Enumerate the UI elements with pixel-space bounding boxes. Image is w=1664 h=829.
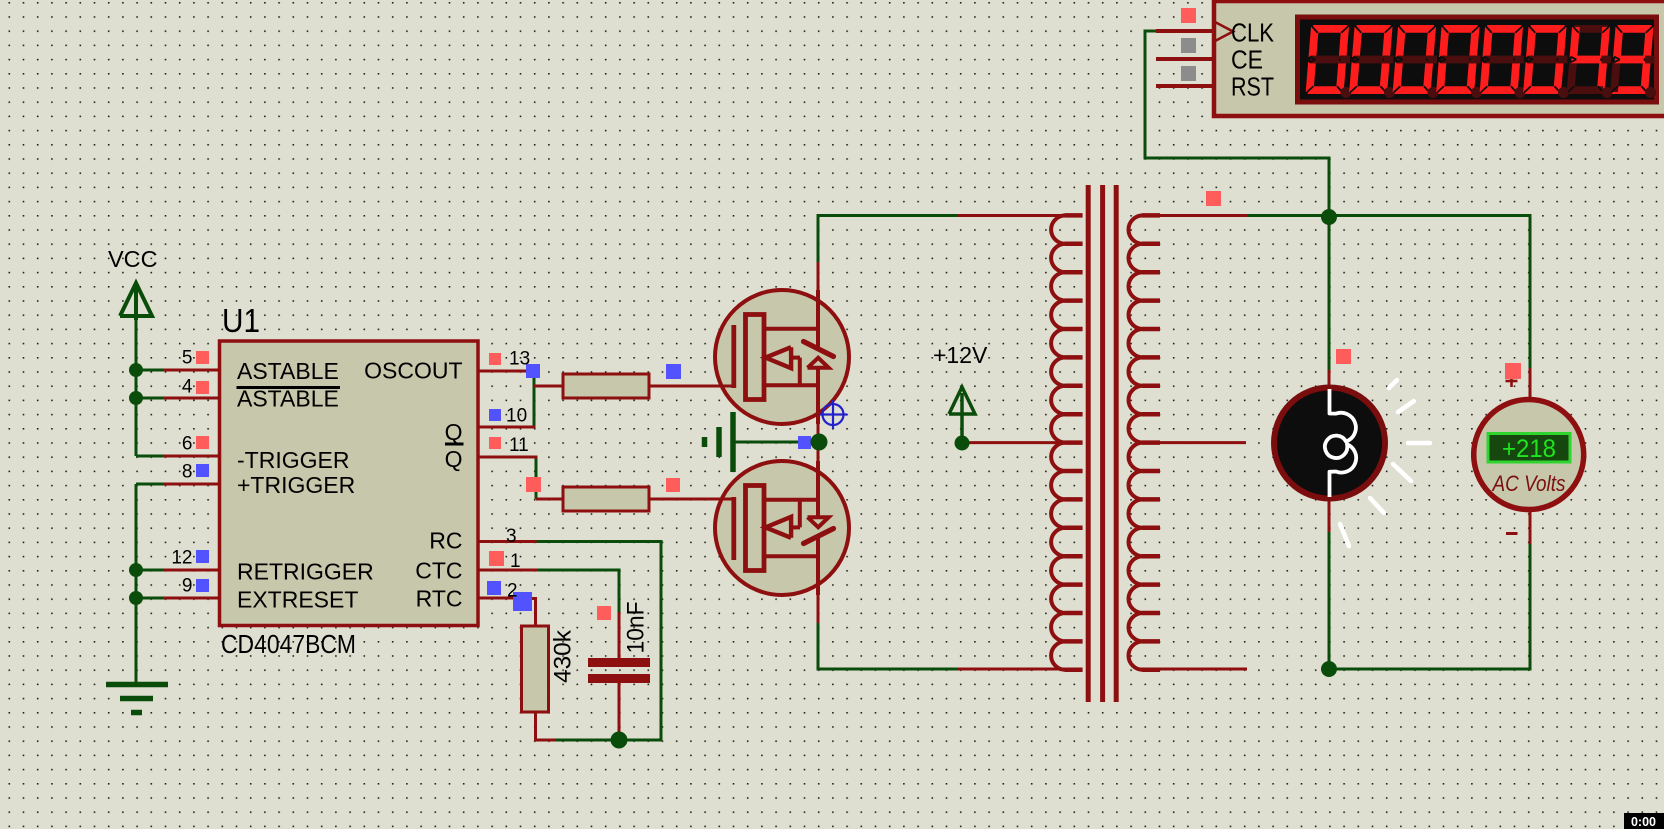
svg-text:CTC: CTC	[415, 558, 462, 584]
svg-text:AC Volts: AC Volts	[1491, 471, 1566, 496]
svg-text:VCC: VCC	[108, 246, 158, 272]
svg-text:U1: U1	[222, 302, 260, 339]
svg-text:6: 6	[182, 434, 193, 455]
svg-text:CE: CE	[1231, 45, 1263, 75]
svg-text:8: 8	[182, 462, 193, 483]
svg-text:10: 10	[506, 406, 527, 427]
svg-text:CD4047BCM: CD4047BCM	[221, 629, 356, 659]
svg-text:2: 2	[507, 581, 518, 602]
svg-text:RST: RST	[1231, 72, 1274, 102]
svg-text:3: 3	[506, 526, 517, 547]
svg-text:ASTABLE: ASTABLE	[237, 358, 339, 384]
svg-text:1: 1	[510, 551, 521, 572]
svg-text:10nF: 10nF	[622, 602, 649, 654]
svg-text:RETRIGGER: RETRIGGER	[237, 559, 374, 585]
svg-text:+TRIGGER: +TRIGGER	[237, 472, 355, 498]
svg-text:0:00: 0:00	[1631, 815, 1656, 829]
svg-text:+12V: +12V	[933, 342, 988, 368]
svg-text:13: 13	[509, 349, 530, 370]
svg-text:-TRIGGER: -TRIGGER	[237, 447, 349, 473]
svg-text:11: 11	[509, 435, 529, 456]
svg-text:ASTABLE: ASTABLE	[237, 386, 339, 412]
svg-text:CLK: CLK	[1231, 18, 1275, 48]
svg-text:Q: Q	[445, 446, 463, 472]
svg-text:RC: RC	[429, 528, 462, 554]
svg-text:430k: 430k	[550, 629, 577, 683]
svg-text:RTC: RTC	[416, 586, 463, 612]
svg-text:+218: +218	[1502, 435, 1556, 463]
svg-text:12: 12	[171, 548, 192, 569]
svg-text:EXTRESET: EXTRESET	[237, 587, 358, 613]
svg-text:Q: Q	[445, 419, 463, 445]
svg-text:4: 4	[182, 377, 193, 398]
svg-text:5: 5	[182, 348, 193, 369]
svg-text:OSCOUT: OSCOUT	[364, 358, 462, 384]
svg-text:9: 9	[182, 576, 193, 597]
